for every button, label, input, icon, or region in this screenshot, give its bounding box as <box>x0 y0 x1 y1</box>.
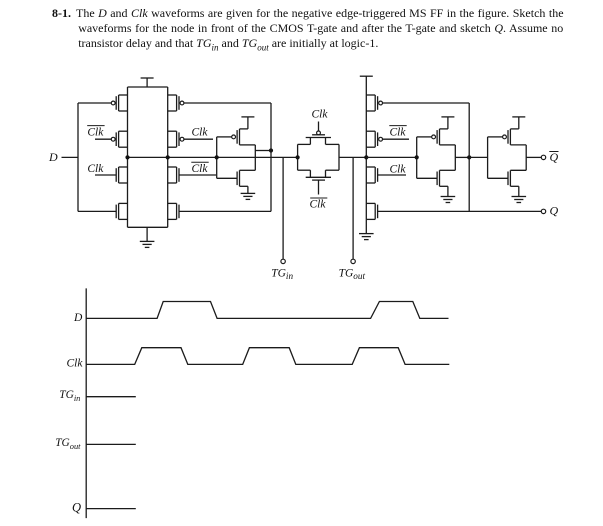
node Q-bar terminal <box>541 155 545 159</box>
svg-text:Q: Q <box>550 150 559 164</box>
inverter U2 output tap wire <box>455 156 469 158</box>
wire node to U3 input <box>469 156 487 158</box>
wire master output node line <box>128 156 298 158</box>
inverter U2 output vertical <box>454 145 456 170</box>
wire M7 gate lead <box>179 174 216 176</box>
transistor M11 PMOS (slave feedback, top) <box>366 95 382 111</box>
ground master <box>140 227 155 247</box>
ground inverter U3 <box>512 186 527 202</box>
wire D gate bus <box>77 103 79 211</box>
inverter U1 NMOS <box>217 170 256 186</box>
wire M12 gate lead <box>383 138 410 140</box>
wire TG_out tap <box>352 157 354 259</box>
inverter U3 output vertical <box>525 145 527 170</box>
waveform Q initial level <box>86 508 136 510</box>
transistor M3 NMOS clocked (gate Clk) <box>116 167 127 183</box>
svg-text:Clk: Clk <box>390 164 407 176</box>
node junction U2 input <box>415 155 419 159</box>
problem statement text <box>52 6 564 21</box>
wire M1 gate lead <box>78 102 111 104</box>
ground inverter U2 <box>441 186 456 202</box>
node junction U1 input <box>215 155 219 159</box>
wire M2 gate lead <box>95 138 111 140</box>
wire column-2 drain connector <box>167 87 169 227</box>
svg-text:D: D <box>73 312 83 324</box>
transistor M1 PMOS (master input stage, top) <box>111 95 127 111</box>
waveform D <box>86 302 448 319</box>
wire M4 gate lead <box>78 210 116 212</box>
wire TG_in tap <box>282 157 284 259</box>
inverter U2 PMOS <box>417 129 456 145</box>
label Clk for M3 <box>87 163 104 175</box>
wire master feedback vertical <box>270 103 272 211</box>
wire slave feedback vertical <box>468 103 470 211</box>
power VDD inverter U2 <box>441 117 454 129</box>
inverter U2 input wire <box>416 137 418 178</box>
wire M8 gate lead to feedback <box>179 210 271 212</box>
svg-text:Clk: Clk <box>192 126 209 138</box>
transistor M5 PMOS (master feedback stage, top) <box>168 95 184 111</box>
ground inverter U1 <box>241 186 256 199</box>
node Q terminal <box>541 209 545 213</box>
svg-text:TGout: TGout <box>339 268 366 282</box>
transistor M14 NMOS (slave feedback, bottom) <box>366 203 377 219</box>
node junction U2 output on slave feedback wire <box>467 155 471 159</box>
wire master ground rail <box>128 226 168 228</box>
power VDD master <box>141 78 154 87</box>
inverter U2 NMOS <box>417 170 456 186</box>
svg-text:Clk: Clk <box>312 109 329 121</box>
node TG_in terminal <box>281 259 285 263</box>
ground slave column <box>359 219 374 239</box>
wire column-1 drain connector <box>127 87 129 227</box>
svg-text:TGin: TGin <box>271 268 293 282</box>
power VDD inverter U3 <box>512 117 525 129</box>
svg-text:Q: Q <box>72 501 81 515</box>
label Clk-bar for M2 <box>87 126 104 139</box>
wire master VDD rail <box>128 86 168 88</box>
wire TG output <box>339 156 366 158</box>
wire D lead <box>62 156 79 158</box>
svg-text:TGin: TGin <box>59 389 80 403</box>
wire M5 gate lead to feedback <box>184 102 271 104</box>
wire column-3 drain connector <box>365 76 367 219</box>
svg-text:TGout: TGout <box>55 437 81 451</box>
node junction U1 output on feedback wire <box>269 148 273 152</box>
node junction col3 output <box>364 155 368 159</box>
transistor M7 NMOS clocked (gate Clk-bar) <box>168 167 179 183</box>
wire M13 gate lead <box>378 174 406 176</box>
waveform TG_in initial level <box>86 396 136 398</box>
inverter U1 PMOS <box>217 129 256 145</box>
transistor M13 NMOS clocked (gate Clk) <box>366 167 377 183</box>
transistor M8 NMOS (master feedback stage, bottom) <box>168 203 179 219</box>
inverter U3 PMOS <box>488 129 527 145</box>
wire Q line <box>378 210 542 212</box>
label Clk-bar for M7 <box>191 162 208 175</box>
node junction col1 output <box>125 155 129 159</box>
transmission gate TG (CMOS T-gate) <box>298 122 339 195</box>
svg-text:Q: Q <box>550 204 559 218</box>
inverter U3 input wire <box>487 137 489 178</box>
power VDD slave column <box>360 75 373 77</box>
svg-text:Clk: Clk <box>67 358 84 370</box>
label Clk for M6 <box>192 126 209 138</box>
transistor M4 NMOS (master input stage, bottom) <box>116 203 127 219</box>
svg-text:Clk: Clk <box>310 199 327 211</box>
label Q-bar <box>549 150 558 164</box>
label Clk-bar for TG bottom gate <box>310 198 328 211</box>
wire M6 gate lead <box>184 138 213 140</box>
wire M11 gate lead to slave feedback <box>383 102 470 104</box>
label Clk for M13 <box>390 164 407 176</box>
inverter U3 NMOS <box>488 170 527 186</box>
node junction TG input <box>296 155 300 159</box>
inverter U3 output tap wire <box>526 156 541 158</box>
svg-text:Clk: Clk <box>87 126 104 138</box>
waveform TG_out initial level <box>86 443 136 445</box>
transistor M12 PMOS clocked (gate Clk-bar) <box>366 131 382 147</box>
inverter U1 output vertical <box>254 145 256 170</box>
waveform Clk <box>86 348 449 365</box>
transistor M6 PMOS clocked (gate Clk) <box>168 131 184 147</box>
wire M3 gate lead <box>95 174 116 176</box>
node TG_out terminal <box>351 259 355 263</box>
waveform axis vertical <box>85 288 87 518</box>
inverter U1 output tap wire <box>255 150 271 152</box>
svg-text:Clk: Clk <box>390 126 407 138</box>
node junction col2 output <box>166 155 170 159</box>
label Clk-bar for M12 <box>389 126 406 139</box>
wire slave node line <box>366 156 416 158</box>
inverter U1 input wire <box>216 137 218 178</box>
svg-text:Clk: Clk <box>192 163 209 175</box>
power VDD inverter U1 <box>241 117 254 129</box>
svg-text:D: D <box>48 150 58 164</box>
transistor M2 PMOS clocked (gate Clk-bar) <box>111 131 127 147</box>
svg-text:Clk: Clk <box>87 163 104 175</box>
